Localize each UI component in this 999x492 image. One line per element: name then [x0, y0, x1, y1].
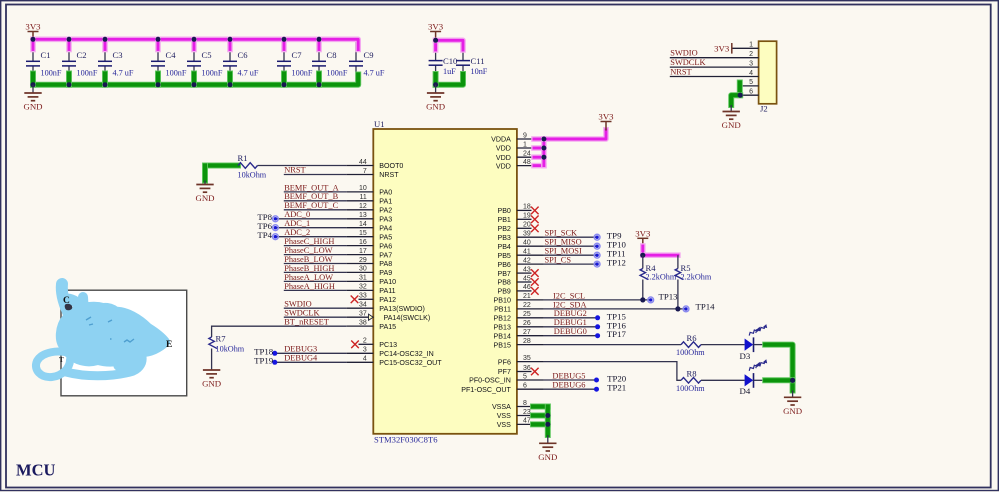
pin 2 J2 — [670, 57, 759, 59]
resistor R6 — [681, 342, 701, 348]
wire R7 to GND — [211, 349, 213, 371]
wire DEBUG0 — [544, 335, 598, 337]
svg-text:4.7 uF: 4.7 uF — [238, 69, 259, 78]
capacitor C6 — [223, 61, 237, 66]
wire green D4 to GND — [765, 377, 792, 383]
junction bottom C2 — [67, 82, 72, 87]
svg-text:PhaseB_LOW: PhaseB_LOW — [284, 255, 332, 264]
wire BOOT0 — [258, 165, 347, 167]
svg-text:DEBUG1: DEBUG1 — [554, 318, 587, 327]
pin 18 PB0 U1 — [517, 209, 532, 211]
svg-text:3: 3 — [749, 60, 753, 67]
wire lead C7 top — [283, 39, 285, 61]
MCU U1 body — [373, 129, 517, 434]
test point TP18 — [272, 351, 277, 356]
svg-text:BEMF_OUT_A: BEMF_OUT_A — [284, 183, 338, 192]
pin 36 PF7 U1 — [517, 371, 532, 373]
svg-text:DEBUG6: DEBUG6 — [552, 381, 585, 390]
3V3 power port (C10/C11) — [428, 22, 444, 41]
svg-text:TP21: TP21 — [607, 383, 626, 393]
pin 20 PB2 U1 — [517, 227, 532, 229]
svg-text:VDD: VDD — [496, 145, 511, 153]
svg-text:PF0-OSC_IN: PF0-OSC_IN — [469, 377, 511, 385]
no-connect X pin 33 PA12 — [351, 296, 359, 304]
svg-text:24: 24 — [523, 151, 531, 158]
svg-text:PB6: PB6 — [497, 261, 510, 269]
svg-text:C3: C3 — [113, 50, 123, 60]
pin 43 PB7 U1 — [517, 272, 532, 274]
wire SWDIO — [284, 307, 347, 309]
pin 24 VDD U1 — [517, 156, 544, 158]
ground (C10/C11) — [426, 93, 445, 112]
svg-text:3V3: 3V3 — [714, 43, 730, 53]
svg-text:C7: C7 — [292, 50, 303, 60]
wire SPI_SCK — [544, 236, 597, 238]
wire lead C6 top — [229, 39, 231, 61]
svg-text:U1: U1 — [374, 119, 385, 129]
svg-text:VSS: VSS — [497, 412, 511, 420]
wire lead C9 top — [355, 39, 357, 61]
junction VDD — [541, 137, 546, 142]
pin 5 J2 — [740, 85, 759, 87]
junction top C3 — [103, 37, 108, 42]
svg-text:ADC_0: ADC_0 — [284, 210, 310, 219]
wire 3V3 stub C1 — [30, 39, 36, 49]
svg-text:15: 15 — [359, 230, 367, 237]
svg-text:2.2kOhm: 2.2kOhm — [681, 273, 712, 282]
svg-text:PC13: PC13 — [379, 341, 397, 349]
3V3 power port (VDD) — [598, 112, 614, 131]
wire BT_nRESET — [212, 326, 347, 337]
svg-text:J2: J2 — [760, 104, 768, 114]
svg-text:C10: C10 — [443, 56, 457, 66]
wire DEBUG4 — [275, 361, 347, 363]
svg-text:PA10: PA10 — [379, 278, 396, 286]
svg-text:100nF: 100nF — [327, 69, 348, 78]
svg-text:GND: GND — [783, 406, 802, 416]
svg-text:PB10: PB10 — [494, 297, 511, 305]
svg-text:100nF: 100nF — [202, 69, 223, 78]
svg-text:PA12: PA12 — [379, 296, 396, 304]
pin 44 BOOT0 U1 — [346, 165, 373, 167]
svg-text:100nF: 100nF — [166, 69, 187, 78]
wire I2C_SDA — [544, 308, 686, 310]
junction top C6 — [228, 37, 233, 42]
svg-text:PhaseC_LOW: PhaseC_LOW — [284, 246, 332, 255]
svg-text:8: 8 — [523, 400, 527, 407]
svg-text:PB3: PB3 — [497, 234, 510, 242]
svg-text:10: 10 — [359, 185, 367, 192]
svg-text:C5: C5 — [202, 50, 212, 60]
pin 47 VSS U1 — [517, 423, 544, 425]
wire R8 to D4 — [701, 379, 745, 381]
pin 28 PB15 U1 — [517, 344, 544, 346]
wire 3V3 stub C4 — [155, 39, 161, 49]
pin 42 PB6 U1 — [517, 263, 544, 265]
svg-text:34: 34 — [359, 302, 367, 309]
LED D3 arrows — [748, 327, 762, 337]
svg-text:47: 47 — [523, 418, 531, 425]
pin 14 PA4 U1 — [346, 227, 373, 229]
note text fragments (visible) — [63, 296, 172, 350]
pin 29 PA8 U1 — [346, 263, 373, 265]
wire lead C2 bottom — [68, 66, 70, 85]
svg-text:31: 31 — [359, 275, 367, 282]
test point TP19 — [272, 360, 277, 365]
svg-text:GND: GND — [426, 102, 445, 112]
wire green VSS stub — [533, 421, 548, 427]
pin 48 VDD U1 — [517, 165, 544, 167]
svg-text:40: 40 — [523, 240, 531, 247]
svg-text:DEBUG0: DEBUG0 — [554, 327, 587, 336]
no-connect X pin 36 — [531, 368, 539, 376]
junction 3V3 C10 — [433, 38, 438, 43]
svg-text:TP14: TP14 — [696, 302, 716, 312]
pin 16 PA6 U1 — [346, 245, 373, 247]
pin 30 PA9 U1 — [346, 271, 373, 273]
svg-text:PhaseA_HIGH: PhaseA_HIGH — [284, 282, 335, 291]
wire green VSS stub — [533, 413, 548, 419]
svg-text:5: 5 — [523, 373, 527, 380]
svg-text:PA13(SWDIO): PA13(SWDIO) — [379, 305, 425, 313]
svg-text:PA15: PA15 — [379, 323, 396, 331]
svg-text:TP19: TP19 — [254, 356, 274, 366]
svg-text:10kOhm: 10kOhm — [216, 345, 245, 354]
wire green VSS vertical — [545, 407, 551, 436]
wire lead C9 bottom — [355, 66, 357, 85]
svg-text:46: 46 — [523, 284, 531, 291]
wire SWDCLK — [284, 316, 347, 318]
svg-text:PB14: PB14 — [494, 332, 511, 340]
svg-text:1: 1 — [523, 141, 527, 148]
resistor R7 — [209, 337, 217, 349]
wire GND stem VSS — [547, 435, 549, 443]
pin 15 PA5 U1 — [346, 236, 373, 238]
pin 3 PC14-OSC32_IN U1 — [346, 352, 373, 354]
junction top C1 — [31, 37, 36, 42]
wire PhaseA_HIGH — [284, 289, 347, 291]
no-connect X pin 18 — [531, 207, 539, 215]
junction VDD — [541, 146, 546, 151]
svg-text:PB13: PB13 — [494, 324, 511, 332]
svg-text:BEMF_OUT_C: BEMF_OUT_C — [284, 201, 338, 210]
wire GND stub C7 — [281, 74, 287, 85]
no-connect X pin 43 — [531, 269, 539, 277]
wire GND stem LEDs — [792, 391, 794, 398]
pin 7 NRST U1 — [346, 174, 373, 176]
junction top C8 — [317, 37, 322, 42]
ground (R1) — [195, 185, 214, 204]
svg-text:4.7 uF: 4.7 uF — [364, 69, 385, 78]
no-connect X pin 20 — [531, 225, 539, 233]
wire green VSS stub — [533, 404, 548, 410]
capacitor C11 — [456, 61, 470, 66]
connector J2 — [759, 41, 777, 104]
wire lead C6 bottom — [229, 66, 231, 85]
test point TP9 — [594, 234, 600, 240]
svg-text:PhaseC_HIGH: PhaseC_HIGH — [284, 237, 334, 246]
svg-text:C6: C6 — [238, 50, 249, 60]
wire 3V3 stub C2 — [66, 39, 72, 49]
dark mark under C — [65, 304, 73, 311]
wire 3V3 VDD stub — [534, 145, 544, 151]
pin 37 input arrow — [369, 314, 374, 320]
svg-text:VDDA: VDDA — [491, 136, 511, 144]
svg-text:BT_nRESET: BT_nRESET — [284, 318, 329, 327]
pin 34 PA13(SWDIO) U1 — [346, 307, 373, 309]
svg-text:PB7: PB7 — [497, 270, 510, 278]
svg-text:VSS: VSS — [497, 421, 511, 429]
svg-text:3V3: 3V3 — [428, 22, 444, 32]
svg-text:PA5: PA5 — [379, 233, 392, 241]
junction top C7 — [282, 37, 287, 42]
wire 3V3 to C11 — [436, 40, 463, 50]
svg-text:27: 27 — [523, 329, 531, 336]
wire GND stub C3 — [102, 74, 108, 85]
ground (VSS) — [538, 443, 557, 462]
svg-text:42: 42 — [523, 257, 531, 264]
wire lead C7 bottom — [283, 66, 285, 85]
note box — [61, 290, 187, 396]
wire 3V3 stub C3 — [102, 39, 108, 49]
wire 3V3 VDD stub — [534, 154, 544, 160]
svg-text:100Ohm: 100Ohm — [676, 348, 705, 357]
svg-text:GND: GND — [202, 379, 221, 389]
wire 3V3 stub C7 — [281, 39, 287, 49]
svg-text:44: 44 — [359, 159, 367, 166]
pin 17 PA7 U1 — [346, 254, 373, 256]
svg-text:23: 23 — [523, 409, 531, 416]
svg-text:100Ohm: 100Ohm — [676, 384, 705, 393]
svg-text:3V3: 3V3 — [635, 228, 651, 238]
wire DEBUG3 — [275, 352, 347, 354]
ground (cap bank) — [23, 93, 42, 112]
pin 32 PA11 U1 — [346, 289, 373, 291]
wire 3V3 VDD stub — [534, 163, 544, 169]
junction bottom C4 — [156, 82, 161, 87]
test point TP21 — [594, 387, 599, 392]
svg-text:33: 33 — [359, 293, 367, 300]
ground (J2) — [722, 112, 741, 131]
junction VSS 47 — [545, 422, 550, 427]
wire R4 top lead — [642, 255, 644, 268]
svg-text:PB5: PB5 — [497, 252, 510, 260]
svg-text:R8: R8 — [687, 369, 697, 379]
wire green BOOT0 to GND — [205, 163, 238, 169]
test point TP11 — [594, 252, 600, 258]
wire SPI_MOSI — [544, 254, 597, 256]
pin 35 PF6 U1 — [517, 361, 544, 363]
svg-text:11: 11 — [360, 194, 367, 201]
svg-text:18: 18 — [523, 204, 531, 211]
pin 10 PA0 U1 — [346, 191, 373, 193]
svg-text:100nF: 100nF — [292, 69, 313, 78]
pin 39 PB3 U1 — [517, 236, 544, 238]
pin 33 PA12 U1 — [359, 298, 374, 300]
capacitor C8 — [312, 61, 326, 66]
pin 1 VDD U1 — [517, 147, 544, 149]
svg-text:SPI_MISO: SPI_MISO — [545, 238, 582, 247]
wire lead C8 bottom — [318, 66, 320, 85]
blue scribble annotation — [36, 284, 165, 377]
svg-text:PB8: PB8 — [497, 279, 510, 287]
svg-text:PB9: PB9 — [497, 288, 510, 296]
test point TP20 — [594, 378, 599, 383]
wire lead C4 bottom — [157, 66, 159, 85]
svg-text:R5: R5 — [681, 263, 691, 273]
wire lead C8 top — [318, 39, 320, 61]
wire SPI_MISO — [544, 245, 597, 247]
svg-text:21: 21 — [523, 293, 531, 300]
LED D3 — [745, 337, 766, 352]
svg-text:ADC_2: ADC_2 — [284, 228, 310, 237]
svg-text:PB2: PB2 — [497, 225, 510, 233]
junction bottom C8 — [317, 82, 322, 87]
scribble dark marks — [86, 317, 134, 342]
pin 38 PA15 U1 — [346, 325, 373, 327]
svg-text:36: 36 — [523, 365, 531, 372]
svg-text:6: 6 — [523, 383, 527, 390]
wire DEBUG2 — [544, 317, 598, 319]
svg-text:NRST: NRST — [670, 67, 691, 76]
wire PhaseA_LOW — [284, 280, 347, 282]
svg-text:PhaseA_LOW: PhaseA_LOW — [284, 273, 333, 282]
junction J2 pin6 — [738, 93, 743, 98]
pin 4 J2 — [670, 76, 759, 78]
svg-text:3V3: 3V3 — [25, 22, 41, 32]
svg-text:GND: GND — [23, 102, 42, 112]
resistor R4 — [640, 269, 648, 280]
svg-text:PC14-OSC32_IN: PC14-OSC32_IN — [379, 350, 433, 358]
pin 41 PB5 U1 — [517, 254, 544, 256]
wire PB15 to R6 — [544, 344, 681, 346]
wire 3V3 VDD vertical — [541, 139, 547, 166]
svg-text:4: 4 — [363, 356, 367, 363]
junction bottom C6 — [228, 82, 233, 87]
svg-text:DEBUG4: DEBUG4 — [284, 354, 318, 363]
svg-text:PB1: PB1 — [497, 216, 510, 224]
svg-text:PhaseB_HIGH: PhaseB_HIGH — [284, 264, 334, 273]
wire BEMF_OUT_C — [284, 209, 347, 211]
test point TP12 — [594, 261, 600, 267]
capacitor C9 — [349, 61, 363, 66]
svg-text:PB11: PB11 — [494, 306, 511, 314]
svg-text:R1: R1 — [238, 153, 248, 163]
pin 21 PB10 U1 — [517, 299, 544, 301]
ground (R7) — [202, 370, 221, 389]
svg-text:C8: C8 — [327, 50, 337, 60]
junction bottom C3 — [103, 82, 108, 87]
wire GND stub C1 — [30, 74, 36, 85]
junction VSS 23 — [545, 413, 550, 418]
svg-text:PF7: PF7 — [498, 368, 511, 376]
test point TP6 — [273, 225, 279, 231]
junction 3V3 pullups — [640, 253, 645, 258]
svg-text:2: 2 — [749, 51, 753, 58]
junction LED GND — [790, 378, 795, 383]
wire lead C4 top — [157, 39, 159, 61]
junction VDD — [541, 155, 546, 160]
svg-text:DEBUG5: DEBUG5 — [552, 371, 585, 380]
wire GND stub C8 — [316, 74, 322, 85]
wire GND stub C4 — [155, 74, 161, 85]
svg-text:43: 43 — [523, 266, 531, 273]
svg-text:100nF: 100nF — [77, 69, 98, 78]
test point TP17 — [595, 333, 600, 338]
junction bottom C1 — [31, 82, 36, 87]
svg-text:25: 25 — [523, 311, 531, 318]
svg-text:20: 20 — [523, 222, 531, 229]
capacitor C2 — [62, 61, 76, 66]
svg-text:D4: D4 — [740, 386, 751, 396]
wire green down — [202, 166, 208, 181]
svg-text:PB12: PB12 — [494, 315, 511, 323]
svg-text:2.2kOhm: 2.2kOhm — [646, 273, 677, 282]
svg-text:MCU: MCU — [16, 461, 55, 480]
svg-text:BOOT0: BOOT0 — [379, 162, 403, 170]
svg-text:R4: R4 — [646, 263, 657, 273]
svg-text:22: 22 — [523, 302, 531, 309]
pin 8 VSSA U1 — [517, 406, 544, 408]
wire lead C5 top — [193, 39, 195, 61]
pin 25 PB12 U1 — [517, 317, 544, 319]
wire R6 to D3 — [701, 344, 745, 346]
svg-text:4: 4 — [749, 70, 753, 77]
svg-text:GND: GND — [195, 193, 214, 203]
ground (LEDs) — [783, 397, 802, 416]
svg-text:PA6: PA6 — [379, 242, 392, 250]
wire GND stub C5 — [191, 74, 197, 85]
wire PhaseB_LOW — [284, 263, 347, 265]
wire lead C5 bottom — [193, 66, 195, 85]
svg-text:38: 38 — [359, 319, 367, 326]
pin 1 J2 — [732, 47, 759, 49]
svg-text:PC15-OSC32_OUT: PC15-OSC32_OUT — [379, 359, 442, 367]
svg-text:C4: C4 — [166, 50, 177, 60]
wire DEBUG1 — [544, 326, 598, 328]
pin 3 J2 — [670, 66, 759, 68]
wire lead C11 bottom — [462, 65, 464, 85]
svg-text:100nF: 100nF — [41, 69, 62, 78]
wire GND stub C6 — [227, 74, 233, 85]
junction GND C10 — [433, 82, 438, 87]
wire R4 to I2C_SCL — [642, 280, 644, 300]
wire 3V3 stub C6 — [227, 39, 233, 49]
svg-text:TP12: TP12 — [607, 257, 626, 267]
svg-text:PB0: PB0 — [497, 207, 510, 215]
svg-text:T: T — [59, 356, 64, 364]
wire 3V3 to R5 — [643, 252, 678, 258]
wire lead C1 top — [32, 39, 34, 61]
capacitor C5 — [187, 61, 201, 66]
pin 9 VDDA U1 — [517, 138, 544, 140]
LED D4 — [745, 373, 766, 388]
3V3 power port (J2 pin1) — [714, 43, 732, 54]
wire BEMF_OUT_B — [284, 200, 347, 202]
wire R5 to I2C_SDA — [677, 280, 679, 309]
wire GND stem — [32, 85, 34, 93]
svg-text:STM32F030C8T6: STM32F030C8T6 — [374, 435, 438, 445]
pin 6 PF1-OSC_OUT U1 — [517, 388, 544, 390]
svg-text:6: 6 — [749, 89, 753, 96]
wire to ground (green) — [731, 95, 740, 105]
wire 3V3 bus (top) — [33, 39, 358, 49]
wire 3V3 VDDA stub — [534, 136, 544, 142]
svg-text:PF1-OSC_OUT: PF1-OSC_OUT — [461, 386, 511, 394]
svg-text:GND: GND — [538, 452, 557, 462]
LED D4 arrows — [748, 362, 762, 372]
svg-text:TP17: TP17 — [607, 329, 627, 339]
